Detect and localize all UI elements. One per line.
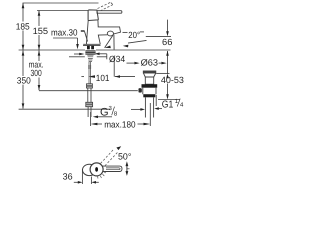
svg-text:Ø34: Ø34 [109, 54, 125, 64]
svg-text:40-53: 40-53 [161, 75, 184, 85]
svg-text:G: G [100, 107, 109, 119]
svg-text:Ø63: Ø63 [141, 58, 158, 68]
svg-text:101: 101 [96, 73, 110, 83]
svg-text:155: 155 [33, 26, 49, 36]
svg-text:300: 300 [31, 68, 42, 78]
svg-text:max.30: max.30 [51, 27, 78, 37]
svg-text:max.180: max.180 [104, 120, 135, 130]
svg-text:185: 185 [16, 22, 30, 32]
svg-text:36: 36 [63, 171, 73, 181]
svg-text:350: 350 [17, 76, 31, 86]
svg-text:66: 66 [162, 37, 172, 47]
svg-text:20°: 20° [128, 30, 140, 40]
svg-text:G1: G1 [162, 100, 174, 111]
svg-text:50°: 50° [118, 152, 132, 162]
